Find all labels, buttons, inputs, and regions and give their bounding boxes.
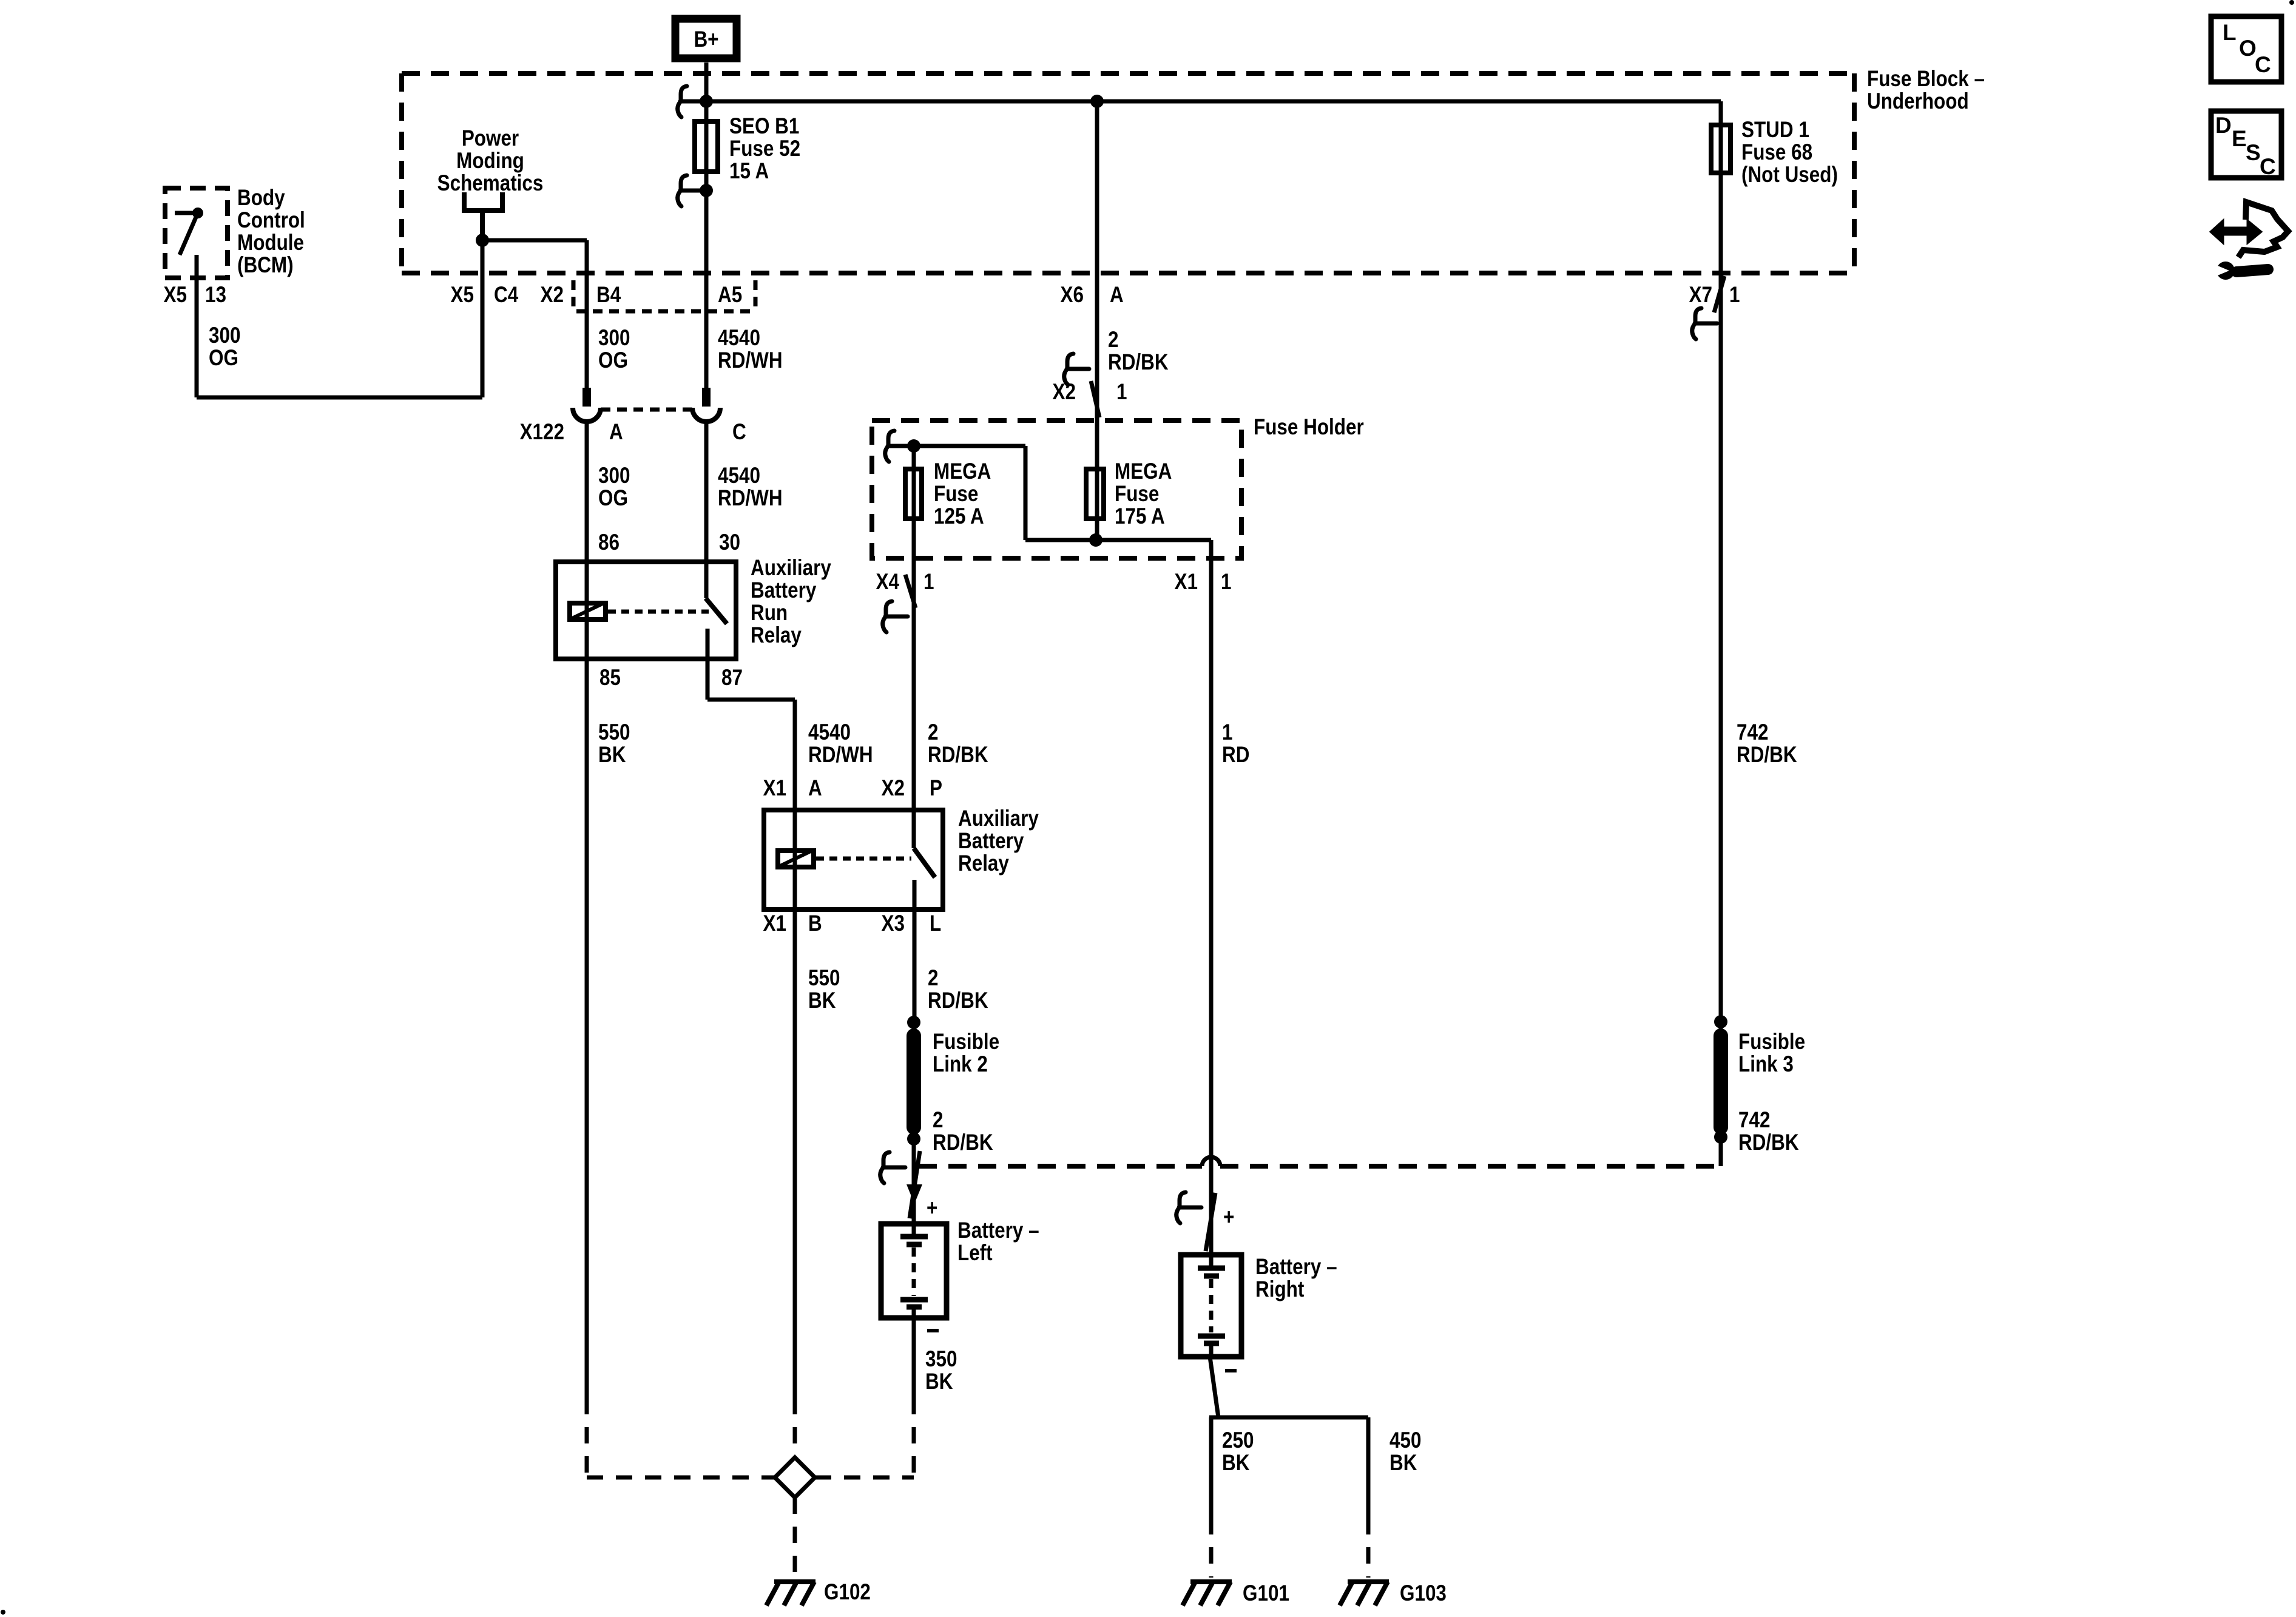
clip in fuse holder — [885, 431, 910, 462]
wire 300 OG / 550 BK left column (X122 A to ground splice) — [585, 422, 589, 1398]
svg-text:Fusible: Fusible — [933, 1030, 999, 1055]
svg-text:Auxiliary: Auxiliary — [958, 806, 1039, 831]
wire fusible link 2 to battery left positive — [912, 1139, 916, 1221]
svg-text:Control: Control — [237, 208, 305, 233]
junction B+ / bus — [700, 95, 713, 108]
wire horizontal run to BCM — [197, 396, 482, 400]
svg-text:X1: X1 — [763, 776, 786, 801]
svg-text:L: L — [930, 911, 941, 936]
svg-text:RD/BK: RD/BK — [1108, 350, 1169, 375]
svg-text:4540: 4540 — [718, 464, 760, 488]
clip at battery left positive — [880, 1152, 905, 1183]
clip below SEO B1 fuse — [678, 175, 703, 206]
label Auxiliary Battery Run Relay — [751, 556, 831, 648]
svg-text:OG: OG — [598, 348, 628, 373]
relay auxiliary battery run relay box — [556, 562, 736, 659]
BCM internal switch — [175, 213, 198, 255]
connector X4-1 blade — [905, 575, 916, 608]
svg-text:G101: G101 — [1243, 1581, 1289, 1606]
svg-text:MEGA: MEGA — [934, 459, 991, 484]
svg-text:X5: X5 — [451, 283, 474, 308]
svg-text:+: + — [927, 1196, 937, 1221]
svg-text:OG: OG — [598, 486, 628, 511]
svg-text:X2: X2 — [1053, 380, 1076, 405]
svg-text:C4: C4 — [494, 283, 518, 308]
service manual icon (double arrow, hand, wrench) — [2210, 202, 2288, 280]
connector X122 terminal A — [573, 388, 601, 422]
LOC hyperlink box — [2211, 16, 2281, 82]
svg-text:L: L — [2223, 20, 2237, 45]
polarity - (battery left) — [927, 1329, 939, 1332]
svg-text:742: 742 — [1738, 1108, 1770, 1133]
svg-text:Battery: Battery — [958, 829, 1024, 854]
body control module (BCM) dashed box — [165, 188, 228, 278]
junction power moding / BCM / 300 OG — [476, 234, 489, 247]
wire label 250 BK — [1222, 1428, 1254, 1476]
wire label 350 BK — [925, 1347, 957, 1394]
svg-text:Fuse 52: Fuse 52 — [729, 137, 800, 161]
svg-text:1: 1 — [1116, 380, 1127, 405]
svg-text:A: A — [609, 420, 623, 445]
ground G101 — [1183, 1582, 1232, 1605]
connector X7-1 blade — [1714, 276, 1724, 312]
svg-text:Module: Module — [237, 231, 304, 255]
svg-text:X122: X122 — [520, 420, 564, 445]
svg-text:BK: BK — [925, 1369, 953, 1394]
junction bus / X6 branch — [1090, 95, 1104, 108]
svg-text:Fuse 68: Fuse 68 — [1741, 140, 1812, 165]
wire label 2 RD/BK (X6) — [1108, 328, 1169, 375]
svg-text:OG: OG — [209, 346, 238, 371]
label Body Control Module (BCM) — [237, 186, 305, 278]
label Fusible Link 3 — [1738, 1030, 1805, 1077]
svg-text:RD/WH: RD/WH — [718, 486, 783, 511]
svg-text:Right: Right — [1255, 1277, 1305, 1302]
label SEO B1 Fuse 52 15 A — [729, 114, 800, 184]
wire label 742 RD/BK (X7 branch) — [1737, 720, 1797, 768]
wire relay2 coil column (X1 A / X1 B / 550 BK) — [793, 700, 797, 1398]
svg-text:550: 550 — [808, 966, 840, 991]
svg-text:15 A: 15 A — [729, 159, 769, 184]
wire 350 BK battery left negative — [912, 1318, 916, 1398]
svg-text:(BCM): (BCM) — [237, 253, 294, 278]
wire BCM X5-13 drop — [195, 255, 199, 397]
wire label 4540 RD/WH (A5) — [718, 326, 783, 373]
svg-text:Battery –: Battery – — [957, 1218, 1039, 1243]
wire label 300 OG (below X122 A) — [598, 464, 630, 511]
wire B+ stem down through SEO B1 fuse to X122 C — [704, 62, 709, 389]
svg-text:B4: B4 — [596, 283, 621, 308]
svg-text:X2: X2 — [541, 283, 564, 308]
fuse holder dashed box — [872, 420, 1241, 558]
svg-text:Schematics: Schematics — [437, 171, 544, 196]
splice diamond — [775, 1457, 815, 1497]
wire label 1 RD — [1222, 720, 1249, 768]
fuse MEGA Fuse 125 A — [905, 469, 922, 519]
svg-text:Body: Body — [237, 186, 285, 211]
svg-text:RD: RD — [1222, 743, 1249, 768]
battery left box — [881, 1224, 947, 1318]
svg-text:A: A — [808, 776, 822, 801]
svg-text:C: C — [2260, 154, 2276, 179]
wire label 4540 RD/WH (to relay2) — [808, 720, 873, 768]
svg-text:RD/WH: RD/WH — [808, 743, 873, 768]
wire label 300 OG (B4) — [598, 326, 630, 373]
svg-text:1: 1 — [1729, 283, 1740, 308]
svg-text:13: 13 — [205, 283, 226, 308]
svg-text:2: 2 — [928, 966, 938, 991]
wire fuse holder right drop — [1024, 446, 1028, 540]
wire 4540 RD/WH jog — [707, 698, 795, 702]
svg-text:30: 30 — [719, 530, 740, 555]
svg-text:RD/BK: RD/BK — [1737, 743, 1797, 768]
svg-text:Relay: Relay — [751, 623, 802, 648]
relay 1 pin 87 stub — [706, 629, 710, 700]
label MEGA Fuse 175 A — [1115, 459, 1172, 529]
svg-text:Underhood: Underhood — [1867, 89, 1969, 114]
B+ battery feed terminal — [675, 19, 737, 58]
label MEGA Fuse 125 A — [934, 459, 991, 529]
relay 1 coil-to-contact dashed link — [608, 610, 709, 614]
svg-text:Relay: Relay — [958, 851, 1009, 876]
connector X122 terminal C — [692, 388, 720, 422]
svg-text:125 A: 125 A — [934, 504, 984, 529]
svg-text:A: A — [1110, 283, 1124, 308]
svg-text:X4: X4 — [876, 570, 899, 595]
wire label 550 BK (left) — [598, 720, 630, 768]
wire label 2 RD/BK (X4 branch) — [928, 720, 988, 768]
wire battery right negative jog — [1210, 1357, 1218, 1417]
svg-text:SEO B1: SEO B1 — [729, 114, 799, 139]
svg-text:G103: G103 — [1400, 1581, 1447, 1606]
wire X5-C4 drop — [481, 240, 485, 397]
svg-text:Left: Left — [957, 1241, 993, 1266]
svg-text:Fusible: Fusible — [1738, 1030, 1805, 1055]
label Fuse Block - Underhood — [1867, 67, 1985, 114]
svg-text:X6: X6 — [1061, 283, 1084, 308]
power moding schematics off-page bracket — [464, 192, 502, 240]
svg-text:O: O — [2239, 36, 2257, 61]
label Power Moding Schematics — [437, 126, 544, 196]
svg-text:E: E — [2232, 126, 2247, 151]
label Battery - Left — [957, 1218, 1039, 1266]
dashed wire fusible link 3 to battery left feed — [919, 1157, 1721, 1166]
junction fusible link 2 bottom — [907, 1132, 920, 1146]
svg-text:BK: BK — [1222, 1451, 1250, 1476]
svg-text:Fuse Block –: Fuse Block – — [1867, 67, 1985, 92]
wire label 742 RD/BK (fusible link 3) — [1738, 1108, 1799, 1155]
wire dashed relay2-B lead to splice — [793, 1398, 797, 1456]
ground G102 — [766, 1582, 815, 1605]
svg-text:RD/WH: RD/WH — [718, 348, 783, 373]
clip at battery right positive — [1177, 1192, 1201, 1223]
wire right branch: bus corner down through STUD 1, X7, fusible link 3 — [1719, 101, 1723, 1166]
svg-text:BK: BK — [808, 988, 836, 1013]
svg-text:Fuse Holder: Fuse Holder — [1254, 415, 1364, 440]
wire label 550 BK (relay2 B) — [808, 966, 840, 1013]
wire 450 BK solid — [1366, 1417, 1371, 1518]
wire 450 BK branch horizontal — [1209, 1416, 1368, 1420]
arrowhead into battery left — [907, 1184, 922, 1204]
junction fusible link 3 bottom — [1714, 1130, 1727, 1144]
svg-text:2: 2 — [1108, 328, 1118, 353]
clip above SEO B1 fuse — [678, 86, 703, 117]
wire junction to 300 OG drop — [482, 238, 587, 243]
connector X2 dashed block outline — [573, 280, 755, 311]
svg-text:Link 2: Link 2 — [933, 1052, 988, 1077]
relay 2 X3 L stub — [913, 880, 917, 912]
wire dashed splice to G102 — [793, 1497, 797, 1576]
svg-text:RD/BK: RD/BK — [933, 1130, 993, 1155]
svg-text:X1: X1 — [1175, 570, 1198, 595]
svg-text:B+: B+ — [694, 27, 718, 52]
svg-text:450: 450 — [1389, 1428, 1421, 1453]
fuse MEGA Fuse 175 A — [1086, 469, 1104, 519]
svg-text:85: 85 — [599, 666, 621, 690]
wire MEGA 125A branch down to relay2 X2 P — [912, 446, 916, 848]
svg-text:Fuse: Fuse — [934, 482, 978, 507]
svg-text:300: 300 — [598, 326, 630, 351]
wire label 450 BK — [1389, 1428, 1421, 1476]
polarity - (battery right) — [1225, 1369, 1237, 1372]
svg-text:X2: X2 — [882, 776, 905, 801]
svg-text:+: + — [1223, 1205, 1234, 1230]
svg-text:X1: X1 — [763, 911, 786, 936]
svg-text:4540: 4540 — [718, 326, 760, 351]
connector X122 dashed link — [601, 408, 692, 412]
svg-text:RD/BK: RD/BK — [928, 988, 988, 1013]
stray dot bottom left — [1, 1610, 5, 1615]
wire 4540 RD/WH X122 C to relay 30 — [704, 422, 709, 598]
svg-text:STUD 1: STUD 1 — [1741, 118, 1809, 143]
wire label 2 RD/BK (relay2 L) — [928, 966, 988, 1013]
relay 2 coil-to-contact dashed link — [816, 857, 911, 861]
clip at X4-1 — [883, 601, 908, 632]
relay 1 switch blade — [706, 598, 727, 624]
svg-text:300: 300 — [598, 464, 630, 488]
wire dashed 450 BK to G103 — [1366, 1518, 1371, 1578]
fuse block underhood dashed outline — [402, 73, 1854, 273]
label Battery - Right — [1255, 1255, 1337, 1302]
svg-text:X5: X5 — [164, 283, 187, 308]
svg-text:Power: Power — [462, 126, 519, 151]
svg-text:A5: A5 — [718, 283, 742, 308]
svg-text:4540: 4540 — [808, 720, 851, 745]
junction below SEO B1 fuse — [700, 184, 713, 197]
label STUD 1 Fuse 68 (Not Used) — [1741, 118, 1838, 187]
svg-text:1: 1 — [1222, 720, 1232, 745]
wire dashed 350 BK to splice — [912, 1398, 916, 1477]
svg-text:MEGA: MEGA — [1115, 459, 1172, 484]
svg-text:1: 1 — [923, 570, 934, 595]
wire label 2 RD/BK (fusible link 2) — [933, 1108, 993, 1155]
junction fusible link 3 top — [1714, 1015, 1727, 1028]
fuse SEO B1 Fuse 52 15A — [695, 121, 718, 172]
svg-text:G102: G102 — [824, 1580, 871, 1605]
DESC hyperlink box — [2211, 111, 2281, 179]
wire 300 OG drop to X122 A — [585, 240, 589, 389]
connector X2-1 blade — [1091, 381, 1099, 417]
wire 1 RD branch down to battery right — [1209, 540, 1214, 1252]
wire main bus inside fuse block — [706, 100, 1721, 104]
junction fuse holder feed — [907, 439, 920, 453]
svg-text:Run: Run — [751, 601, 788, 626]
relay 2 coil — [778, 851, 814, 867]
svg-text:X7: X7 — [1689, 283, 1712, 308]
ground G103 — [1340, 1582, 1389, 1605]
connector blade at battery right positive — [1206, 1193, 1215, 1251]
svg-text:250: 250 — [1222, 1428, 1254, 1453]
label Fusible Link 2 — [933, 1030, 999, 1077]
svg-text:D: D — [2215, 113, 2232, 138]
junction MEGA 175A output — [1089, 533, 1102, 547]
connector blade at battery left positive — [910, 1151, 920, 1218]
wire label 4540 RD/WH (below X122 C) — [718, 464, 783, 511]
svg-text:BK: BK — [598, 743, 626, 768]
svg-text:RD/BK: RD/BK — [928, 743, 988, 768]
wire label 300 OG (BCM) — [209, 323, 240, 371]
wire dashed 550 BK to splice — [585, 1398, 589, 1477]
svg-text:Auxiliary: Auxiliary — [751, 556, 831, 581]
svg-text:C: C — [732, 420, 746, 445]
svg-text:P: P — [930, 776, 942, 801]
svg-text:X3: X3 — [882, 911, 905, 936]
svg-text:175 A: 175 A — [1115, 504, 1165, 529]
wire 250 BK solid — [1209, 1417, 1214, 1518]
wire dashed 250 BK to G101 — [1209, 1518, 1214, 1578]
wire fuse holder top link — [914, 444, 1025, 448]
svg-text:BK: BK — [1389, 1451, 1417, 1476]
clip at X2-1 — [1064, 354, 1089, 385]
svg-text:Battery: Battery — [751, 578, 816, 603]
relay auxiliary battery relay box — [764, 810, 943, 910]
svg-text:Battery –: Battery – — [1255, 1255, 1337, 1280]
svg-text:86: 86 — [598, 530, 620, 555]
fuse STUD 1 Fuse 68 — [1711, 125, 1730, 173]
svg-text:RD/BK: RD/BK — [1738, 1130, 1799, 1155]
relay 2 switch blade — [914, 848, 935, 877]
wire 2 RD/BK relay2 X3 to fusible link 2 — [913, 912, 917, 1139]
svg-text:(Not Used): (Not Used) — [1741, 163, 1838, 187]
svg-text:B: B — [808, 911, 822, 936]
stray dot top right — [2289, 0, 2294, 5]
battery right cell symbol — [1198, 1255, 1225, 1357]
svg-text:S: S — [2246, 140, 2261, 165]
svg-text:Link 3: Link 3 — [1738, 1052, 1794, 1077]
svg-text:2: 2 — [928, 720, 938, 745]
svg-text:742: 742 — [1737, 720, 1768, 745]
clip at X7-1 — [1692, 308, 1717, 339]
svg-text:Fuse: Fuse — [1115, 482, 1159, 507]
label Auxiliary Battery Relay — [958, 806, 1039, 876]
junction fusible link 2 top — [907, 1016, 920, 1029]
fusible link 3 element — [1714, 1036, 1728, 1127]
svg-text:1: 1 — [1221, 570, 1231, 595]
BCM switch pivot — [192, 208, 203, 218]
svg-text:350: 350 — [925, 1347, 957, 1372]
wire dashed splice right lead — [815, 1476, 914, 1480]
svg-text:87: 87 — [721, 666, 743, 690]
wire X6-A branch down through MEGA fuse 175A — [1095, 101, 1099, 540]
svg-text:300: 300 — [209, 323, 240, 348]
wire fuse holder bottom link — [1025, 538, 1211, 542]
wire dashed splice left lead — [587, 1476, 774, 1480]
battery right box — [1181, 1255, 1241, 1357]
fusible link 2 element — [907, 1036, 921, 1127]
svg-text:Moding: Moding — [456, 149, 524, 174]
svg-text:2: 2 — [933, 1108, 943, 1133]
svg-text:550: 550 — [598, 720, 630, 745]
relay 1 coil — [570, 603, 606, 619]
battery left cell symbol — [900, 1224, 928, 1318]
svg-text:C: C — [2255, 52, 2271, 77]
